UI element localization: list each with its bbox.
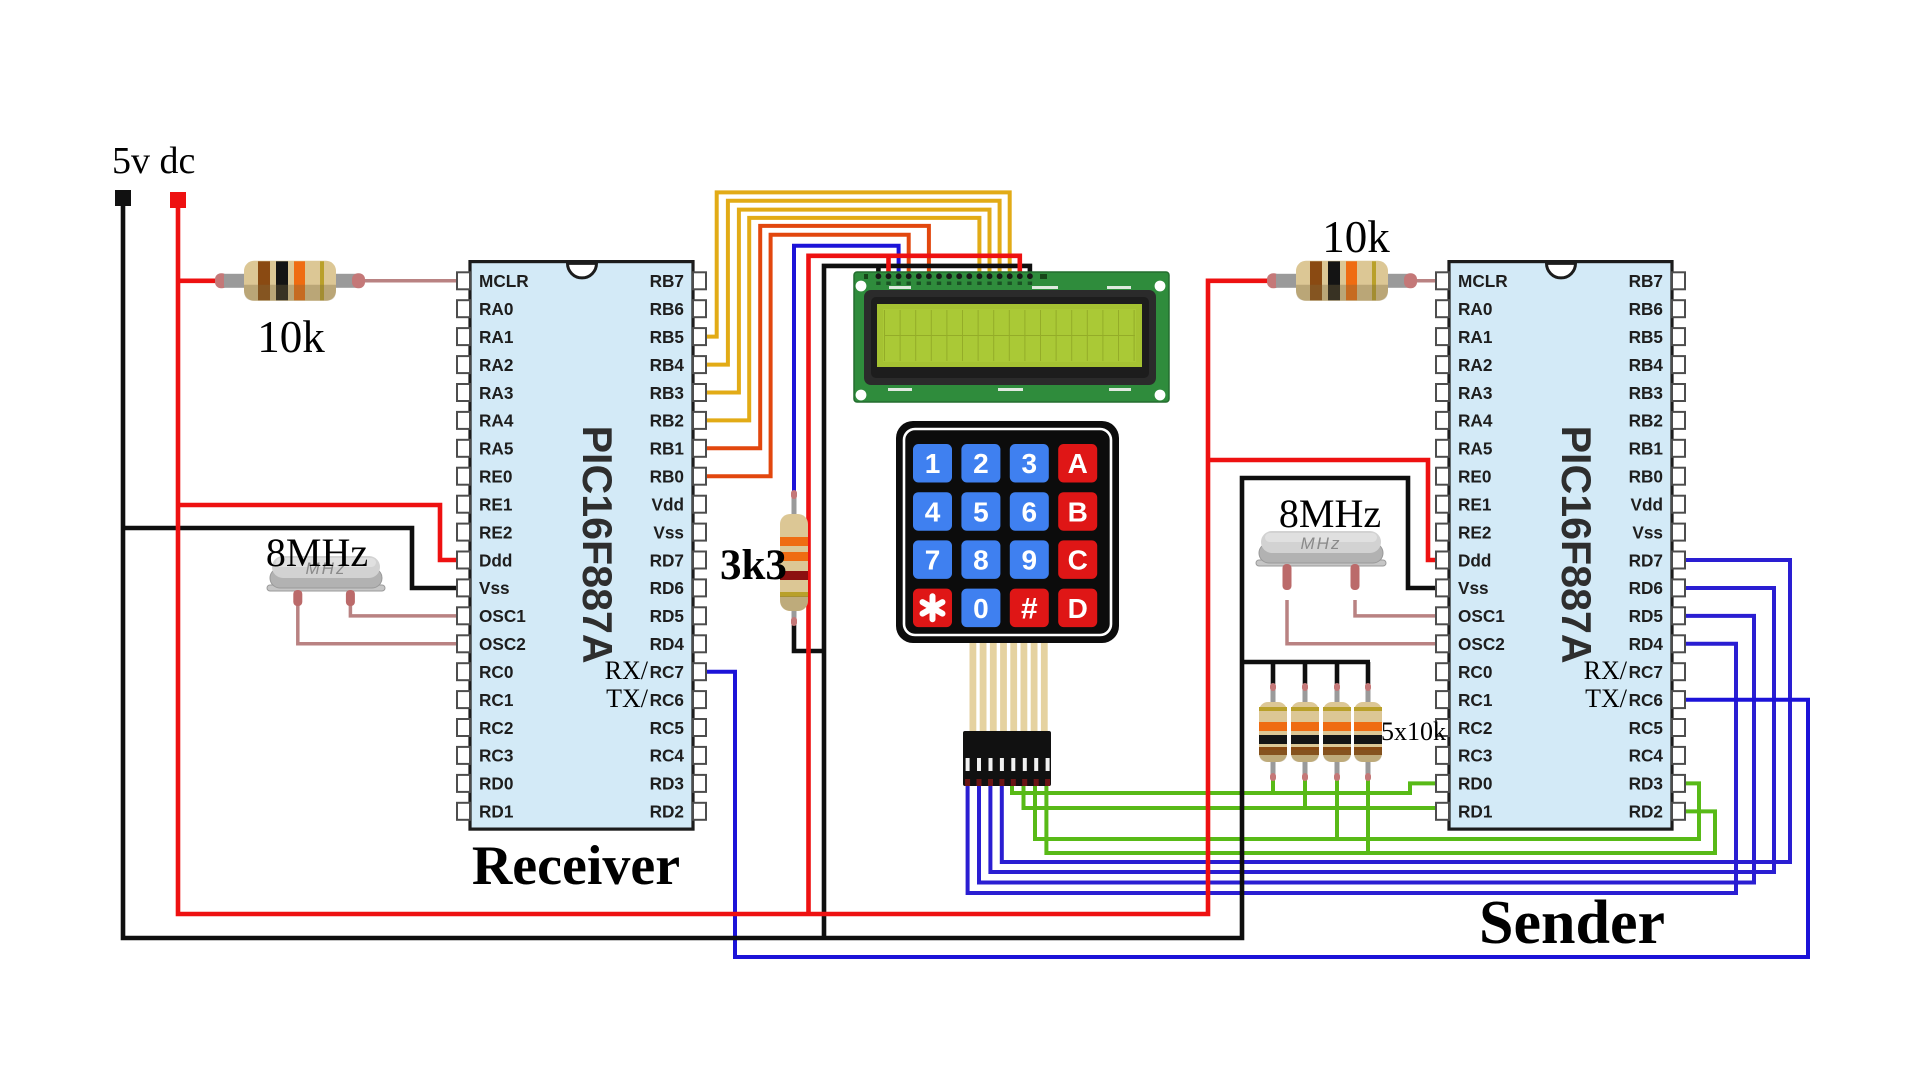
svg-text:5v dc: 5v dc [112,140,195,182]
resistor network 5x10k [1271,684,1276,706]
ground wire LCD pin1/pin16 [876,266,881,276]
ground wire: terminal to bottom bus to sender Vss [123,206,1446,938]
svg-text:2: 2 [973,448,989,479]
svg-text:3k3: 3k3 [720,542,787,589]
op chip U1 PIC16F887A receiver [457,262,706,830]
power terminal red (+5v) [170,192,186,208]
wire receiver RC7 RX to sender RC6 TX (blue) [700,672,1808,957]
svg-text:5: 5 [973,496,989,527]
ground wire 3k3 bottom [794,622,824,651]
keypad 4x4 [896,421,1119,643]
resistor R3 3k3 (LCD contrast) [792,492,797,518]
svg-text:10k: 10k [257,312,325,362]
svg-text:TX/: TX/ [606,684,649,713]
wire keypad pin5 / R1 / RD0 (green) [1012,783,1441,793]
wire keypad pin1 to RD4 (blue) [968,644,1736,893]
svg-text:D: D [1068,593,1088,624]
svg-text:9: 9 [1022,545,1038,576]
svg-text:A: A [1068,448,1088,479]
svg-text:8MHz: 8MHz [1279,491,1381,536]
wire keypad pin2 to RD5 (blue) [979,616,1754,883]
crystal X1 8MHz receiver [267,585,385,591]
svg-text:8: 8 [973,545,989,576]
wire 10k to sender MCLR (pink lead) [1414,279,1446,283]
wire keypad pin6 / R2 / RD1 (green) [1024,784,1442,808]
svg-text:7: 7 [925,545,941,576]
wire keypad pin4 to RD7 (blue) [1002,560,1790,862]
resistor R2 10k (sender MCLR pullup) [1267,273,1280,288]
resistor R1 10k (receiver MCLR pullup) [215,273,228,288]
chip U2 PIC16F887A sender [1436,262,1685,830]
wire RB2 to LCD D4 (yellow) [700,218,979,421]
wire RB4 to LCD D6 (yellow) [700,201,1000,365]
wire RB0 to LCD RS (orange) [700,235,909,476]
wire 10k to receiver MCLR (pink lead) [362,279,462,283]
svg-text:TX/: TX/ [1585,684,1628,713]
wire keypad pin3 to RD6 (blue) [990,588,1774,872]
svg-text:C: C [1068,545,1088,576]
keypad connector 8pin [963,731,1051,786]
ground branch to receiver Vss [123,528,462,588]
power terminal black (GND) [115,190,131,206]
wire sender crystal to OSC2 (pink) [1287,600,1446,644]
svg-text:4: 4 [925,496,941,527]
+5v wire: terminal down, bottom bus [178,208,1270,914]
svg-text:6: 6 [1022,496,1038,527]
wire RB3 to LCD D5 (yellow) [700,210,990,393]
svg-text:8MHz: 8MHz [266,530,368,575]
wire 3k3 to LCD V0 (blue) [794,246,899,500]
LCD display module 16x2 [854,272,1169,402]
ground bus for resistor network [1242,660,1370,665]
+5v branch to sender Ddd [1208,460,1446,560]
wire keypad pin8 / R4 / RD2 (green) [1046,784,1715,853]
wire RB5 to LCD D7 (yellow) [700,192,1010,336]
svg-text:3: 3 [1022,448,1038,479]
svg-text:Receiver: Receiver [472,835,680,897]
svg-text:#: # [1021,593,1038,626]
wire receiver crystal to OSC1 (pink) [350,600,462,616]
svg-text:RX/: RX/ [605,656,649,685]
+5v wire LCD Vdd / backlight A [886,256,891,276]
keypad ribbon cable [970,643,1048,731]
+5v branch to 10k left lead [178,278,219,283]
wire sender crystal to OSC1 (pink) [1355,600,1446,616]
svg-text:RX/: RX/ [1584,656,1628,685]
svg-text:1: 1 [925,448,941,479]
wire RB1 to LCD E (orange) [700,226,929,448]
+5v branch to receiver Ddd [178,505,462,560]
wire keypad pin7 / R3 / RD3 (green) [1035,783,1699,839]
svg-text:Sender: Sender [1479,889,1665,957]
crystal X2 8MHz sender [1256,560,1386,566]
wire receiver crystal to OSC2 (pink) [298,600,462,644]
svg-text:10k: 10k [1322,212,1390,262]
svg-text:0: 0 [973,593,989,624]
svg-text:5x10k: 5x10k [1381,717,1446,746]
svg-text:B: B [1068,496,1088,527]
svg-text:MHz: MHz [1301,534,1342,553]
